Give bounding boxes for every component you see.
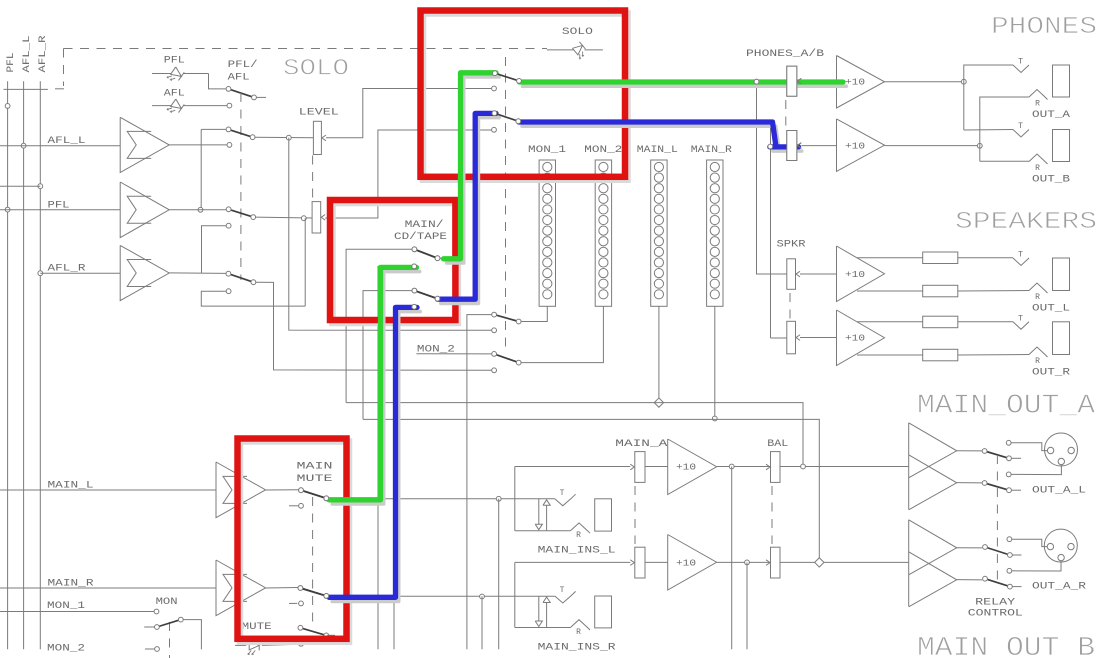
svg-text:AFL: AFL bbox=[164, 88, 185, 99]
svg-text:SOLO: SOLO bbox=[283, 56, 349, 82]
svg-text:R: R bbox=[1035, 100, 1040, 109]
wire mainA out bbox=[717, 466, 771, 468]
node insL split bbox=[496, 496, 501, 501]
node bal1 y402 join bbox=[801, 464, 806, 469]
op-amp phones A +10 bbox=[837, 56, 885, 109]
wire mute R up bbox=[394, 307, 414, 650]
node phones B split redraw bbox=[768, 144, 773, 149]
svg-text:PHONES: PHONES bbox=[991, 14, 1097, 41]
wire insL down bbox=[498, 499, 500, 650]
dashed gang phones pots bbox=[785, 100, 787, 127]
switch MAIN/CD 1 bbox=[414, 249, 437, 258]
switch AFL_R sel bbox=[228, 274, 253, 283]
wire solo A out bbox=[521, 81, 787, 83]
jack OUT_A bbox=[1013, 65, 1029, 73]
op-amp sum AFL_L bbox=[120, 117, 169, 172]
svg-text:MAIN OUT B: MAIN OUT B bbox=[917, 634, 1095, 658]
wire AFL_L bbox=[0, 145, 120, 147]
wire insR down bbox=[481, 596, 483, 649]
contact cdtape2 lower bbox=[412, 304, 417, 309]
svg-text:AFL_L: AFL_L bbox=[22, 36, 33, 73]
svg-text:MON_1: MON_1 bbox=[528, 145, 566, 156]
switch relay A hot bbox=[985, 451, 1009, 458]
wire mute L up bbox=[378, 266, 414, 649]
svg-text:OUT_R: OUT_R bbox=[1032, 368, 1070, 379]
wire level2 branch down bbox=[304, 218, 306, 306]
switch PFL sel bbox=[229, 209, 254, 217]
svg-text:SPKR: SPKR bbox=[777, 240, 806, 251]
wire jackB R bbox=[980, 160, 1029, 162]
svg-text:MON_2: MON_2 bbox=[47, 644, 85, 655]
wire solo led bbox=[547, 49, 574, 51]
dashed solo logic line bbox=[64, 48, 548, 50]
pot SPKR1 bbox=[787, 259, 796, 290]
contact cdtape1 lower redraw bbox=[412, 264, 417, 269]
wire to AFL_L upper bbox=[201, 128, 226, 130]
svg-text:MAIN/: MAIN/ bbox=[405, 219, 444, 231]
wire MAIN_R bbox=[0, 587, 216, 589]
resistor spkrL hot bbox=[923, 252, 958, 264]
node on PFL bus 2 bbox=[5, 207, 10, 212]
switch MAIN MUTE R bbox=[300, 588, 326, 596]
svg-text:OUT_L: OUT_L bbox=[1032, 304, 1070, 315]
svg-text:MAIN_L: MAIN_L bbox=[48, 481, 94, 492]
dashed gang bal pots bbox=[771, 486, 773, 544]
wire level2 wiper bbox=[325, 130, 494, 218]
pot BAL1 bbox=[771, 452, 781, 483]
svg-text:AFL_R: AFL_R bbox=[38, 36, 49, 73]
svg-text:T: T bbox=[560, 489, 565, 498]
wire ampB out bbox=[885, 145, 980, 147]
switch MUTE bbox=[300, 628, 326, 636]
wire spkr A down bbox=[757, 82, 787, 274]
switch solo A bbox=[495, 73, 519, 81]
wire spkrR cold bbox=[857, 354, 923, 356]
node PFL out bbox=[198, 207, 203, 212]
wire bus y419 bbox=[363, 419, 819, 562]
resistor spkrL cold bbox=[923, 285, 958, 297]
switch MAIN/CD 2 redraw bbox=[414, 291, 437, 299]
bus AFL_R vertical bbox=[39, 81, 41, 649]
node mainL join bbox=[654, 398, 663, 407]
contact muteR lower bbox=[299, 601, 304, 606]
wire MAIN_L bbox=[0, 489, 216, 491]
wire PFL led elbow bbox=[209, 74, 226, 89]
svg-text:RELAY: RELAY bbox=[975, 597, 1015, 608]
node mainR join bbox=[712, 416, 717, 421]
svg-text:MAIN_R: MAIN_R bbox=[691, 145, 732, 156]
wire sumL out bbox=[266, 489, 299, 491]
contact muteL lower bbox=[299, 503, 304, 508]
dashed gang relay bbox=[996, 455, 998, 580]
switch relay B hot bbox=[985, 547, 1010, 555]
wire mon1 send bbox=[467, 315, 494, 650]
wire drvA cold bbox=[957, 482, 982, 484]
svg-text:MAIN: MAIN bbox=[297, 462, 333, 473]
wire AFL_R lower feed bbox=[201, 291, 305, 306]
fader MAIN_L bbox=[651, 160, 667, 306]
node jackB bbox=[977, 143, 982, 148]
svg-text:PHONES_A/B: PHONES_A/B bbox=[746, 48, 824, 60]
wire drvB hot bbox=[957, 547, 982, 549]
svg-text:OUT_A_L: OUT_A_L bbox=[1032, 485, 1086, 496]
wire mainA tap down bbox=[731, 467, 733, 650]
driver MAIN_OUT_A bbox=[908, 423, 910, 510]
wire PFL lower feed bbox=[202, 226, 227, 273]
svg-text:R: R bbox=[1035, 357, 1040, 366]
wire mon sel out bbox=[183, 620, 201, 650]
svg-text:PFL: PFL bbox=[6, 53, 17, 73]
op-amp MAIN_A +10 bbox=[668, 439, 717, 495]
switch relay A cold bbox=[985, 483, 1009, 490]
svg-text:AFL_L: AFL_L bbox=[48, 136, 86, 147]
svg-text:MAIN_L: MAIN_L bbox=[637, 145, 678, 156]
connector XLR OUT_A_R bbox=[1044, 529, 1077, 562]
svg-text:R: R bbox=[576, 531, 581, 540]
switch relay B cold bbox=[985, 579, 1010, 587]
green path mute to cdtape bbox=[332, 272, 420, 504]
pot SPKR2 bbox=[787, 321, 796, 354]
dashed gang level pots bbox=[312, 156, 314, 202]
wire bus y402 bbox=[346, 403, 803, 467]
wire solo B out bbox=[520, 121, 787, 146]
resistor spkrR hot bbox=[923, 316, 958, 328]
wire insR top bbox=[515, 561, 630, 563]
switch MON sel bbox=[157, 620, 181, 627]
stub mon2b bbox=[145, 648, 154, 650]
green path solo to phones bbox=[523, 84, 847, 88]
node phones A split redraw bbox=[754, 79, 759, 84]
node on AFL_R bus bbox=[38, 184, 43, 189]
jack OUT_B bbox=[1013, 130, 1029, 138]
bus label PFL bbox=[6, 53, 17, 73]
node on PFL bus bbox=[5, 104, 10, 109]
highlight box SOLO bbox=[423, 14, 628, 180]
svg-text:BAL: BAL bbox=[767, 439, 788, 450]
contact mon2 lower bbox=[492, 368, 497, 373]
svg-text:MAIN_R: MAIN_R bbox=[48, 579, 94, 590]
wire drvA hot bbox=[957, 450, 982, 452]
op-amp sum MAIN_L bbox=[216, 462, 266, 518]
switch solo B bbox=[494, 113, 518, 121]
stub mute arm bbox=[327, 634, 335, 636]
LED AFL bbox=[167, 98, 184, 116]
pot LEVEL2 bbox=[312, 202, 321, 233]
node mainB tap bbox=[745, 560, 750, 565]
svg-text:MUTE: MUTE bbox=[242, 622, 272, 633]
svg-text:MAIN_A: MAIN_A bbox=[615, 439, 667, 450]
blue path cdtape to solo bbox=[441, 118, 499, 304]
dashed gang monitor switches bbox=[240, 93, 242, 280]
wire level1 branch down bbox=[289, 138, 494, 331]
bus top tick bbox=[4, 88, 48, 90]
driver MAIN_OUT_A R bbox=[908, 520, 910, 607]
LED SOLO bbox=[571, 42, 588, 59]
svg-text:MAIN_OUT_A: MAIN_OUT_A bbox=[917, 392, 1096, 422]
switch MAIN/CD 1 redraw bbox=[414, 249, 437, 258]
highlight box MAIN/CD/TAPE bbox=[333, 203, 458, 323]
svg-text:MON_2: MON_2 bbox=[584, 145, 622, 156]
node on AFL_R bus 2 bbox=[38, 271, 43, 276]
wire to level1 bbox=[255, 136, 314, 139]
svg-text:R: R bbox=[1035, 164, 1040, 173]
svg-text:T: T bbox=[1018, 314, 1023, 323]
dashed gang solo switches bbox=[505, 57, 507, 350]
insert jack MAIN_INS_L bbox=[514, 467, 516, 531]
op-amp sum PFL bbox=[120, 182, 169, 238]
svg-text:MAIN_INS_R: MAIN_INS_R bbox=[538, 643, 616, 654]
contact AFL_L lower bbox=[227, 143, 232, 148]
svg-text:T: T bbox=[1018, 122, 1023, 131]
bus label AFL_R bbox=[38, 36, 49, 73]
wire fader MAIN_R down bbox=[714, 306, 716, 418]
LED MUTE bbox=[248, 640, 259, 654]
svg-text:OUT_B: OUT_B bbox=[1032, 175, 1070, 186]
contact mon1 upper bbox=[154, 609, 159, 614]
node mainA tap bbox=[729, 464, 734, 469]
wire cdtape1 upper feed bbox=[346, 249, 414, 402]
wire MON_1 bbox=[5, 611, 154, 613]
wire spkr2 to amp bbox=[800, 337, 837, 339]
svg-text:LEVEL: LEVEL bbox=[299, 107, 339, 118]
wire relayB to xlr2 bbox=[1012, 539, 1047, 546]
wire spkrR hot bbox=[857, 321, 923, 323]
svg-text:PFL: PFL bbox=[164, 56, 185, 67]
wire mute led bbox=[235, 644, 246, 646]
svg-text:SOLO: SOLO bbox=[562, 27, 593, 38]
wire ampA out bbox=[885, 81, 964, 83]
stub muteR lower bbox=[289, 602, 297, 604]
wire stub y186 bbox=[0, 185, 40, 187]
wire spkr2 feed bbox=[771, 337, 787, 339]
node jackA bbox=[961, 79, 966, 84]
fader MON_2 bbox=[595, 160, 611, 306]
wire spkrL hot bbox=[857, 257, 923, 259]
op-amp spkr L +10 bbox=[837, 246, 885, 302]
wire muteR out bbox=[328, 595, 555, 597]
wire to level2 bbox=[255, 216, 312, 219]
dashed drop left bbox=[63, 49, 65, 87]
wire potA amp bbox=[645, 466, 668, 468]
wire fader MAIN_L down bbox=[658, 306, 660, 402]
op-amp sum AFL_R bbox=[120, 245, 169, 300]
svg-text:+10: +10 bbox=[676, 558, 696, 569]
wire cdtape2 upper feed bbox=[363, 291, 414, 420]
svg-text:AFL_R: AFL_R bbox=[48, 264, 86, 275]
switch MON1 solo bbox=[494, 315, 519, 322]
contact solo A lower bbox=[492, 86, 497, 91]
wire mon2 fader link bbox=[521, 306, 604, 362]
wire relayA gnd bbox=[1011, 465, 1061, 475]
svg-text:R: R bbox=[576, 628, 581, 637]
node level1 in bbox=[286, 135, 291, 140]
wire level1 wiper bbox=[326, 89, 494, 138]
contact mon1 lower bbox=[492, 328, 497, 333]
wire relayB gnd bbox=[1012, 561, 1061, 571]
svg-text:MON_1: MON_1 bbox=[47, 601, 85, 612]
node phones A split bbox=[754, 79, 759, 84]
contact mute lower bbox=[299, 641, 304, 646]
LED PFL bbox=[167, 66, 184, 84]
switch MAIN/CD 2 bbox=[414, 291, 437, 299]
svg-text:+10: +10 bbox=[845, 269, 865, 280]
highlight box MAIN MUTE bbox=[240, 442, 349, 642]
stub mon sel bbox=[144, 626, 154, 628]
dashed gang spkr pots bbox=[789, 293, 791, 319]
jack OUT_R bbox=[1013, 322, 1029, 330]
node bal2 y419 join bbox=[815, 558, 824, 567]
wire cdtape2 arm up bbox=[441, 113, 495, 298]
switch AFL_L bbox=[229, 129, 253, 137]
switch MAIN MUTE L bbox=[301, 490, 326, 498]
node insR split bbox=[480, 594, 485, 599]
svg-text:AFL: AFL bbox=[228, 73, 250, 84]
wire muteL out bbox=[328, 498, 555, 500]
svg-text:R: R bbox=[1035, 293, 1040, 302]
blue path solo to phones bbox=[522, 126, 779, 151]
svg-text:CONTROL: CONTROL bbox=[968, 609, 1023, 620]
op-amp spkr R +10 bbox=[837, 310, 885, 366]
wire cdtape arm up bbox=[441, 73, 495, 258]
wire spkrL cold bbox=[857, 290, 923, 292]
svg-text:T: T bbox=[560, 586, 565, 595]
node on AFL_L bus bbox=[21, 143, 26, 148]
dash end tick bbox=[55, 88, 64, 90]
svg-text:MAIN_INS_L: MAIN_INS_L bbox=[538, 546, 616, 557]
wire jack T routing bbox=[964, 65, 1013, 130]
bus PFL vertical bbox=[7, 81, 9, 649]
contact below pfl/afl bbox=[227, 103, 232, 108]
node level2 in bbox=[301, 216, 306, 221]
wire jackB T bbox=[964, 129, 1013, 132]
fader MON_1 bbox=[539, 160, 555, 306]
contact solo B lower bbox=[492, 127, 497, 132]
contact cdtape2 lower redraw bbox=[412, 304, 417, 309]
svg-text:T: T bbox=[1018, 58, 1023, 67]
pot BAL2 bbox=[771, 547, 781, 578]
contact relayA gnd bbox=[1006, 472, 1011, 477]
fader MAIN_R bbox=[707, 160, 723, 306]
pot PHONES_A bbox=[787, 66, 797, 96]
svg-text:+10: +10 bbox=[676, 462, 696, 473]
contact relayB T bbox=[1007, 537, 1012, 542]
wire potB amp bbox=[645, 561, 668, 563]
wire potB to amp bbox=[802, 145, 837, 147]
contact cdtape1 lower bbox=[412, 264, 417, 269]
wire AFL_R arm out bbox=[255, 282, 494, 370]
pot MAIN_B bbox=[635, 547, 645, 578]
jack OUT_L bbox=[1013, 258, 1029, 266]
dashed gang mute switches bbox=[312, 497, 314, 626]
wire potA to amp bbox=[802, 81, 837, 83]
svg-text:MON: MON bbox=[156, 597, 178, 608]
pot LEVEL1 bbox=[313, 121, 321, 154]
connector XLR OUT_A_L bbox=[1045, 433, 1078, 466]
bus AFL_L vertical bbox=[23, 81, 25, 649]
contact AFL_R lower bbox=[226, 289, 231, 294]
stub muteL lower bbox=[289, 505, 298, 507]
switch MAIN MUTE R redraw bbox=[300, 588, 326, 596]
svg-text:OUT_A: OUT_A bbox=[1032, 110, 1070, 121]
pot PHONES_B redraw bbox=[787, 131, 797, 161]
switch PFL/AFL bbox=[229, 89, 255, 98]
pot PHONES_B bbox=[787, 131, 797, 161]
svg-text:PFL: PFL bbox=[48, 200, 70, 211]
green path cdtape to solo bbox=[447, 77, 500, 263]
op-amp phones B +10 bbox=[837, 119, 885, 171]
wire AFL led bbox=[152, 105, 171, 107]
blue path mute to cdtape bbox=[332, 312, 420, 602]
wire AFL_R out bbox=[169, 272, 226, 275]
svg-text:CD/TAPE: CD/TAPE bbox=[394, 231, 447, 243]
pot MAIN_A bbox=[635, 452, 645, 483]
wire sum AFL_L out bbox=[169, 144, 227, 146]
dashed gang main pots bbox=[634, 486, 636, 544]
insert jack MAIN_INS_R bbox=[514, 562, 516, 627]
contact relayA T bbox=[1006, 440, 1011, 445]
wire bal1 out bbox=[780, 466, 909, 468]
wire mon1 fader link bbox=[521, 306, 548, 321]
svg-text:+10: +10 bbox=[845, 333, 865, 344]
svg-text:+10: +10 bbox=[845, 141, 865, 152]
bus label AFL_L bbox=[22, 36, 33, 73]
wire spkr1 to amp bbox=[800, 273, 837, 275]
op-amp MAIN_B +10 bbox=[668, 535, 717, 591]
wire bal2 out bbox=[780, 561, 909, 563]
wire relayA to xlr2 bbox=[1011, 443, 1047, 451]
contact mon2b bbox=[155, 647, 160, 652]
resistor spkrR cold bbox=[923, 349, 958, 361]
wire drvB cold bbox=[957, 579, 982, 581]
dashed gang mon switches bbox=[169, 622, 171, 658]
wire PFL bbox=[0, 209, 120, 211]
contact PFL lower bbox=[226, 223, 231, 228]
pot PHONES_A redraw bbox=[787, 66, 797, 96]
svg-text:T: T bbox=[1018, 251, 1023, 260]
svg-text:OUT_A_R: OUT_A_R bbox=[1032, 581, 1086, 592]
switch MON2 solo bbox=[494, 354, 519, 363]
wire sumR out bbox=[266, 587, 298, 590]
wire jack R routing bbox=[980, 97, 1029, 161]
wire PFL led bbox=[152, 73, 171, 75]
wire mainB tap down bbox=[746, 562, 748, 649]
tick mon1 bbox=[0, 611, 5, 613]
svg-text:+10: +10 bbox=[845, 77, 865, 88]
svg-text:PFL/: PFL/ bbox=[228, 59, 258, 71]
switch MAIN MUTE L redraw bbox=[301, 490, 326, 498]
op-amp sum MAIN_R bbox=[216, 560, 266, 616]
svg-text:MUTE: MUTE bbox=[297, 474, 333, 485]
wire PFL out bbox=[169, 209, 226, 211]
wire insL top bbox=[515, 466, 631, 468]
wire mainB out bbox=[717, 561, 771, 563]
wire spkr B down bbox=[770, 147, 772, 339]
wire mon2 underline bbox=[416, 353, 491, 355]
contact relayB gnd bbox=[1007, 568, 1012, 573]
svg-text:SPEAKERS: SPEAKERS bbox=[955, 209, 1097, 236]
wire AFL_R bbox=[40, 272, 120, 274]
